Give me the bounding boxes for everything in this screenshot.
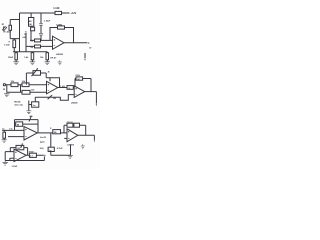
resistor R13 (U4 feedback) bbox=[15, 122, 39, 127]
op-amp U2 bbox=[47, 81, 58, 94]
ground (under R5) bbox=[13, 62, 19, 65]
wire U6 inputs bbox=[5, 152, 44, 161]
wire U4 feedback outer loop bbox=[15, 120, 39, 133]
ground (small, right) bbox=[81, 144, 85, 149]
resistor R5 (to gnd) bbox=[8, 52, 17, 62]
svg-text:C 40pF: C 40pF bbox=[44, 19, 51, 22]
svg-text:10kΩ: 10kΩ bbox=[8, 57, 13, 59]
supply arrow (stage4) bbox=[29, 116, 32, 121]
wire stage2 + input row bbox=[7, 84, 47, 86]
op-amp U1 bbox=[53, 36, 65, 49]
op-amp U3 bbox=[74, 86, 85, 98]
photosensor RT bbox=[2, 24, 7, 31]
module box (bias, text inside) bbox=[29, 13, 34, 27]
op-amp U5 bbox=[67, 129, 78, 142]
svg-text:47kΩ: 47kΩ bbox=[29, 150, 34, 153]
resistor small box (below module) bbox=[25, 27, 35, 33]
wire U5 output bbox=[78, 134, 95, 136]
svg-text:4.7: 4.7 bbox=[30, 155, 32, 158]
wire stage2 - input row bbox=[7, 85, 47, 93]
svg-text:LM308: LM308 bbox=[56, 54, 64, 56]
svg-text:Vo=2V: Vo=2V bbox=[40, 137, 47, 139]
output terminal down arrow bbox=[95, 92, 97, 104]
supply -12V down arrow bbox=[84, 53, 86, 58]
node U1 feedback junction bbox=[73, 42, 74, 43]
wire wiper row bbox=[35, 96, 52, 98]
ground (branch) bbox=[67, 155, 73, 158]
ground (U6 left) bbox=[2, 161, 8, 166]
node U5 output junction bbox=[85, 135, 86, 136]
wire U6 feedback loop bbox=[10, 148, 27, 156]
wire U3 feedback drop bbox=[90, 79, 92, 92]
wire U6 output bbox=[26, 154, 44, 156]
wire U4 output bbox=[37, 132, 53, 134]
node U3 output junction bbox=[91, 91, 92, 92]
ground (under R6) bbox=[30, 62, 36, 65]
svg-text:1.1kΩ: 1.1kΩ bbox=[12, 166, 18, 168]
resistor R6 (to gnd) bbox=[24, 52, 34, 62]
svg-text:LM308: LM308 bbox=[71, 103, 78, 105]
wire U1 feedback loop bbox=[50, 28, 74, 43]
svg-text:1.5MΩ: 1.5MΩ bbox=[56, 24, 62, 26]
resistor R11 (U3 input) bbox=[67, 86, 74, 90]
svg-text:1k: 1k bbox=[68, 88, 70, 90]
svg-text:1.149: 1.149 bbox=[53, 7, 60, 10]
svg-text:+12V: +12V bbox=[71, 12, 77, 15]
wire pot left drop bbox=[25, 73, 27, 85]
supply arrow (stage6) bbox=[21, 144, 23, 148]
svg-text:140: 140 bbox=[29, 23, 32, 26]
wire U5 + input stub bbox=[64, 137, 67, 139]
wire U5 feedback riser bbox=[64, 125, 86, 133]
resistor R14 (to gnd) bbox=[2, 128, 13, 139]
svg-text:1m: 1m bbox=[2, 128, 5, 130]
output terminal down arrow (U5) bbox=[93, 135, 95, 140]
wire U4 inputs bbox=[2, 130, 24, 136]
resistor RF 1M (feedback) bbox=[56, 24, 65, 29]
ground (under R7) bbox=[45, 62, 51, 65]
output arrow right bbox=[88, 42, 90, 43]
wire U3 inverting network bbox=[52, 95, 74, 101]
svg-text:1.4kΩ: 1.4kΩ bbox=[5, 30, 11, 33]
wire U2 feedback loop bbox=[50, 78, 60, 88]
svg-text:offset adj: offset adj bbox=[14, 104, 23, 107]
wire U2 output bbox=[58, 87, 67, 89]
svg-text:1.1k: 1.1k bbox=[9, 128, 13, 130]
resistor R2 1.1M (top rail) bbox=[55, 11, 62, 14]
svg-text:1m: 1m bbox=[33, 105, 36, 107]
svg-text:CR-97: CR-97 bbox=[67, 122, 74, 124]
ground (under P2) bbox=[26, 111, 31, 114]
resistor R12 (U3 feedback) bbox=[75, 75, 91, 86]
svg-text:R8 20k: R8 20k bbox=[14, 101, 21, 103]
resistor R2 1.1k (vertical, to rail) bbox=[4, 39, 20, 52]
resistor R8 10k bbox=[11, 81, 18, 86]
svg-text:100): 100) bbox=[40, 148, 44, 150]
wire divider rail bbox=[13, 51, 47, 53]
resistor R17 (U5 feedback b) bbox=[74, 123, 80, 127]
supply +12V arrow bbox=[67, 12, 69, 14]
svg-text:LM308: LM308 bbox=[67, 144, 74, 146]
resistor R16 (U5 feedback a) bbox=[67, 123, 73, 127]
svg-text:OP-07: OP-07 bbox=[50, 58, 57, 60]
ground (under R14) bbox=[2, 140, 7, 143]
wire U5 feedback drop bbox=[85, 125, 87, 135]
resistor R4b 100k (op-amp - input) bbox=[26, 45, 53, 49]
wiper arrow (offset) bbox=[48, 95, 52, 99]
op-amp U6 bbox=[14, 149, 26, 161]
svg-text:1 kΩ: 1 kΩ bbox=[60, 86, 65, 88]
wire vertical bus from rail corner bbox=[19, 13, 21, 52]
wire pot right drop to feedback bbox=[46, 73, 50, 78]
resistor R9 10k bbox=[22, 81, 29, 86]
wire left drop x26 bbox=[25, 33, 27, 52]
svg-text:(gain: (gain bbox=[40, 142, 46, 144]
resistor R15 (U5 input) bbox=[50, 128, 67, 134]
output arrow right (U6) bbox=[44, 155, 46, 156]
ground (stage2 left) bbox=[4, 92, 10, 96]
wire U1 output bbox=[64, 42, 87, 44]
potentiometer P2 (offset adj) bbox=[29, 97, 39, 111]
capacitor C2 (on +12V drop) bbox=[39, 13, 51, 40]
wire sensor branch bbox=[10, 19, 19, 21]
resistor R18 (branch) bbox=[48, 147, 54, 151]
resistor R4a 100k (op-amp + input) bbox=[30, 39, 53, 43]
ground (x59.5 mid) bbox=[58, 60, 62, 64]
wire +in reference drop bbox=[70, 145, 72, 156]
wire U3 output bbox=[85, 91, 97, 93]
resistor R20 (U6 output) bbox=[29, 150, 37, 157]
resistor R19 (U6 feedback) bbox=[16, 145, 24, 149]
input terminal IN bbox=[3, 84, 7, 91]
op-amp U4 bbox=[24, 127, 37, 141]
svg-text:10k: 10k bbox=[54, 132, 57, 134]
wire module drop to wire A bbox=[30, 31, 32, 41]
resistor R10 10k bbox=[22, 89, 35, 94]
resistor R1 1.4k (vertical, top-left) bbox=[4, 20, 11, 39]
resistor R7 (to gnd) bbox=[40, 52, 49, 62]
wire top +12V rail bbox=[20, 12, 67, 14]
potentiometer P1 bbox=[26, 68, 50, 76]
wire lower branch drop bbox=[51, 133, 70, 155]
svg-text:1.1kΩ: 1.1kΩ bbox=[4, 44, 10, 46]
svg-text:4.7kΩ: 4.7kΩ bbox=[57, 147, 63, 150]
